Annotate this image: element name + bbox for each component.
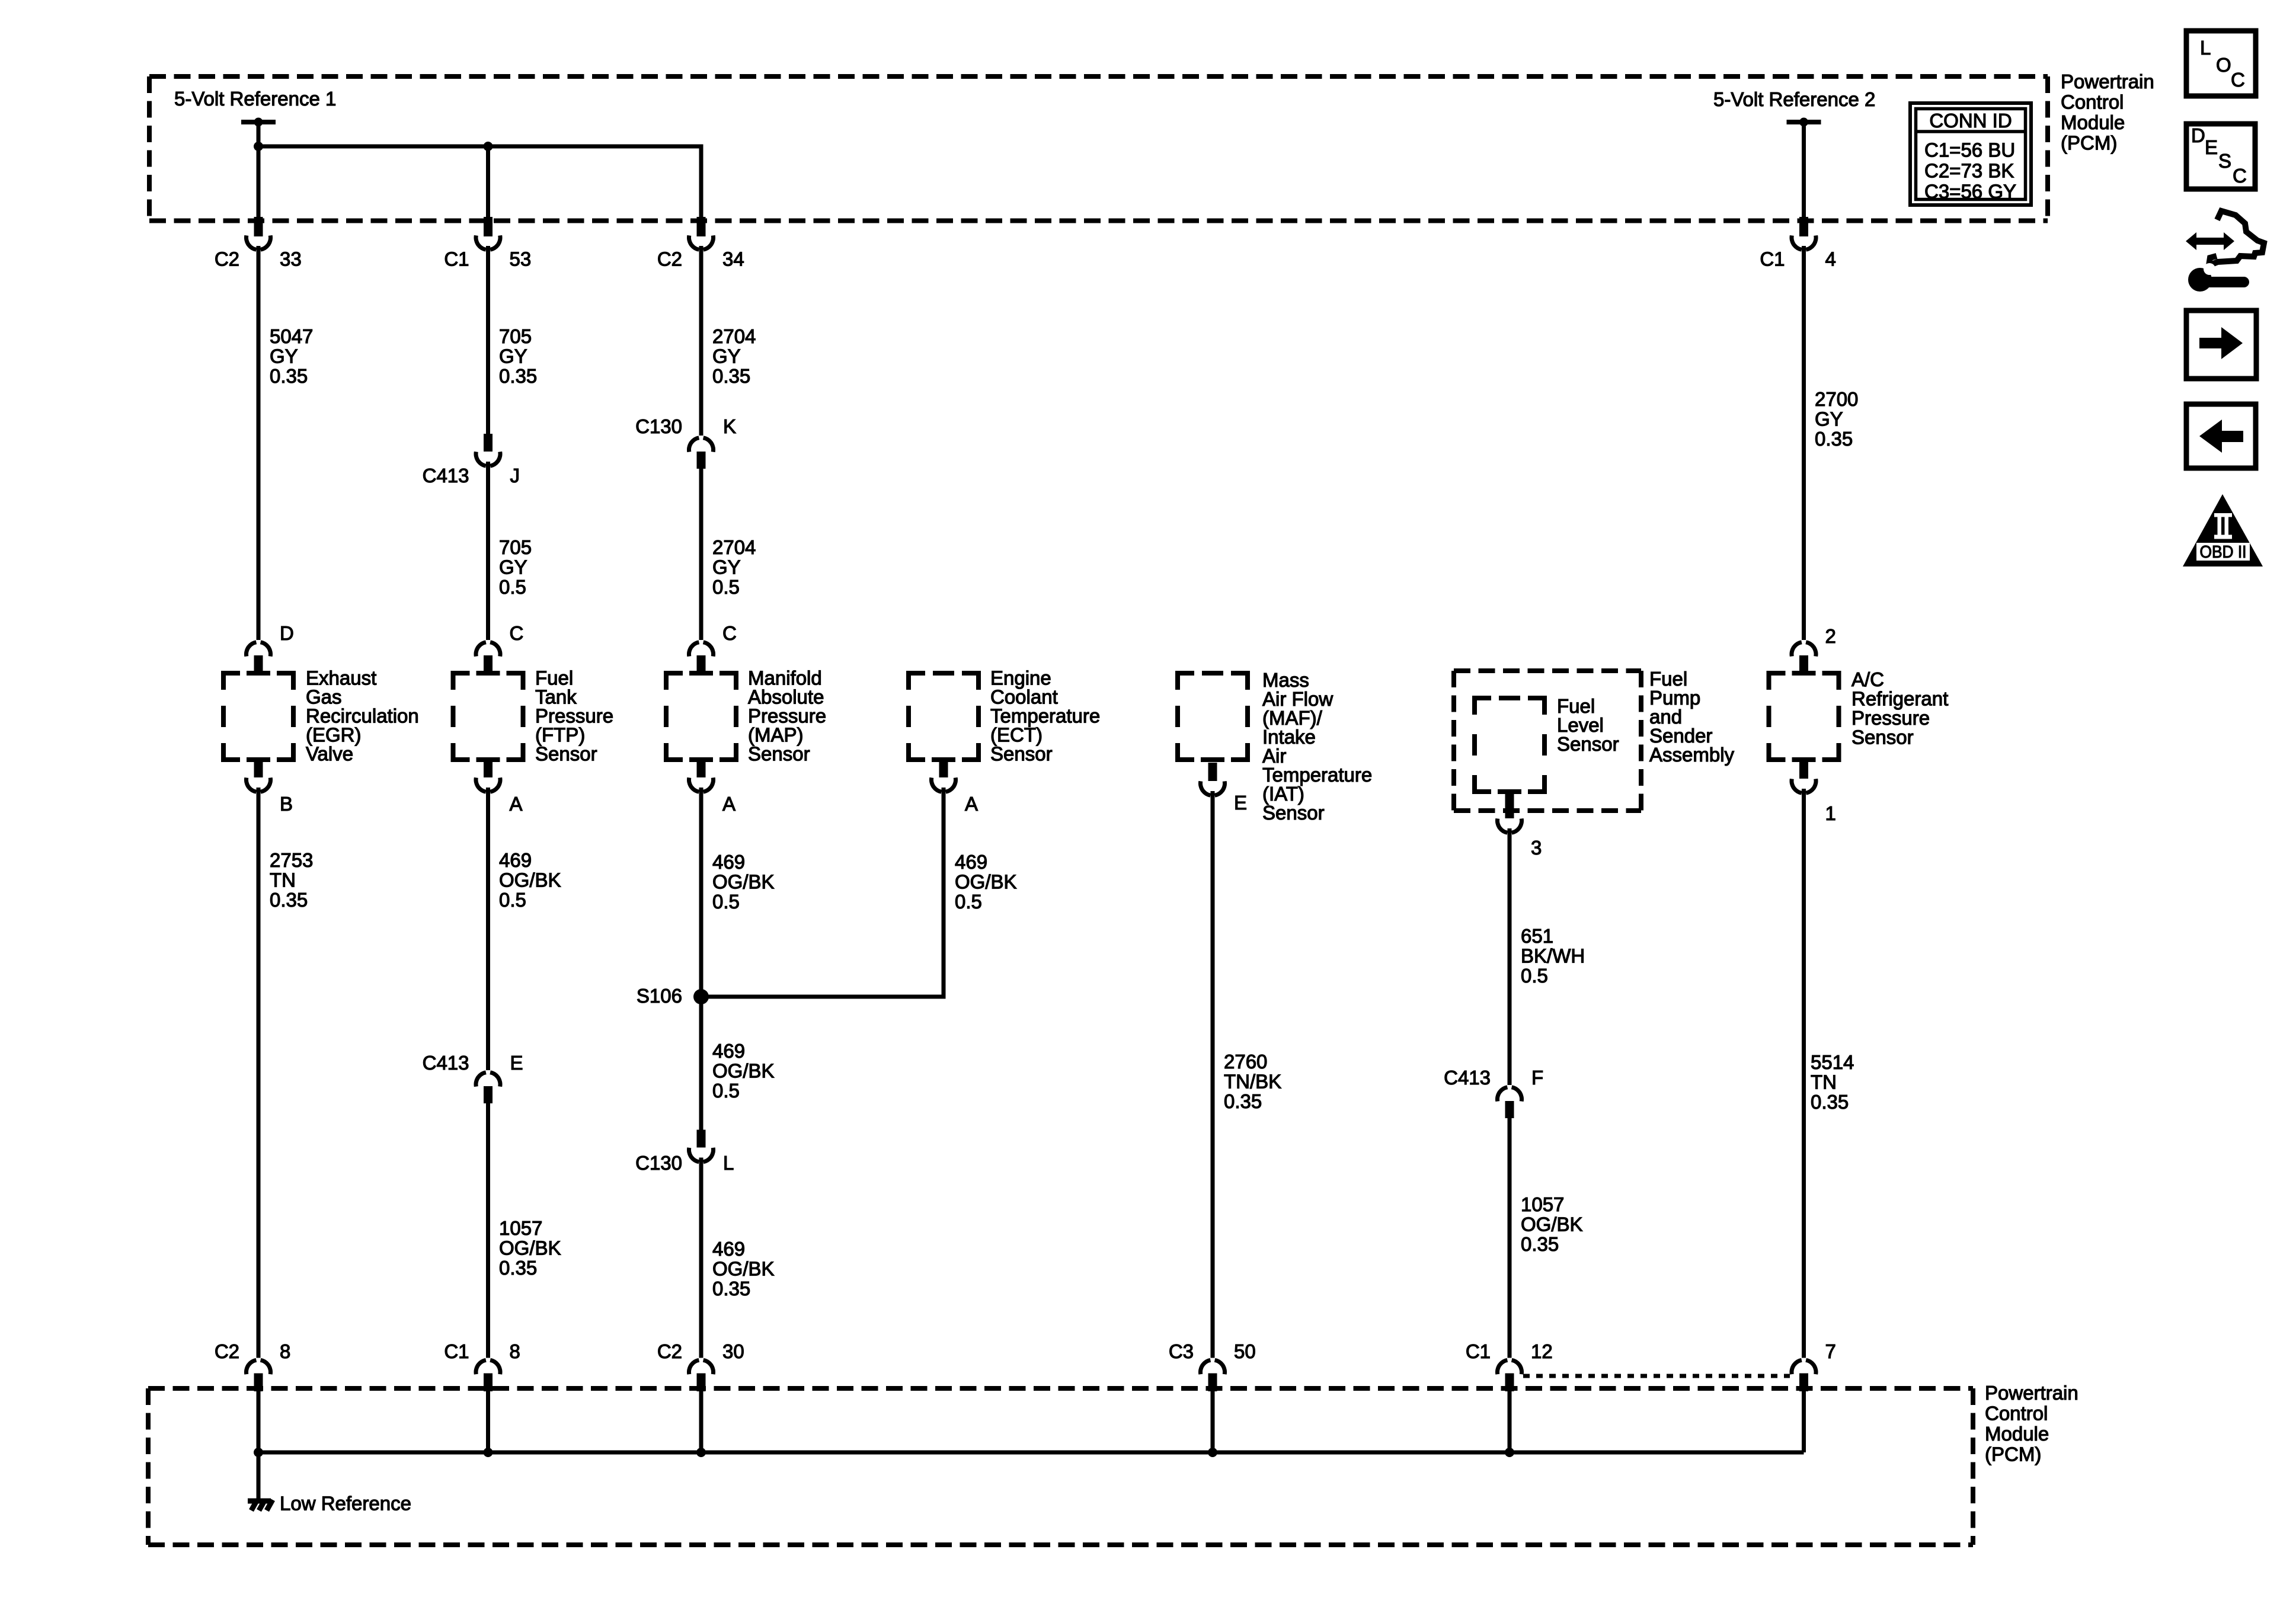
svg-text:C: C <box>510 622 524 644</box>
svg-text:2704: 2704 <box>712 325 756 347</box>
svg-text:OG/BK: OG/BK <box>1521 1214 1583 1235</box>
svg-text:2: 2 <box>1825 625 1836 647</box>
svg-text:1057: 1057 <box>1521 1193 1564 1215</box>
svg-text:GY: GY <box>270 345 298 367</box>
svg-text:C2: C2 <box>657 248 682 270</box>
svg-text:C413: C413 <box>423 465 469 486</box>
svg-text:7: 7 <box>1825 1340 1836 1362</box>
svg-text:Sensor: Sensor <box>748 743 810 765</box>
svg-text:E: E <box>510 1052 523 1074</box>
svg-text:B: B <box>280 793 293 815</box>
svg-text:GY: GY <box>1815 408 1843 430</box>
svg-text:0.35: 0.35 <box>499 365 537 387</box>
svg-text:Assembly: Assembly <box>1649 744 1735 766</box>
svg-text:E: E <box>2205 136 2218 158</box>
svg-text:A: A <box>722 793 736 815</box>
svg-text:D: D <box>280 622 294 644</box>
svg-text:C413: C413 <box>1444 1067 1491 1089</box>
svg-text:L: L <box>2200 37 2211 59</box>
svg-text:Control: Control <box>2061 91 2124 113</box>
svg-text:(PCM): (PCM) <box>1985 1443 2041 1465</box>
svg-text:5047: 5047 <box>270 325 313 347</box>
svg-text:469: 469 <box>712 851 745 873</box>
svg-text:C1=56 BU: C1=56 BU <box>1924 139 2015 161</box>
svg-text:0.35: 0.35 <box>712 1278 750 1299</box>
svg-text:Low Reference: Low Reference <box>280 1493 411 1515</box>
svg-text:2753: 2753 <box>270 849 313 871</box>
svg-text:469: 469 <box>955 851 987 873</box>
svg-text:A: A <box>510 793 523 815</box>
svg-text:C130: C130 <box>635 1152 682 1174</box>
svg-text:2700: 2700 <box>1815 388 1858 410</box>
svg-text:OG/BK: OG/BK <box>499 869 561 891</box>
svg-text:0.35: 0.35 <box>270 889 308 911</box>
svg-text:0.35: 0.35 <box>1815 428 1853 450</box>
svg-text:C1: C1 <box>444 1340 469 1362</box>
svg-text:651: 651 <box>1521 925 1553 947</box>
svg-text:C: C <box>2231 69 2245 91</box>
svg-text:705: 705 <box>499 536 532 558</box>
svg-text:C: C <box>722 622 737 644</box>
svg-text:0.35: 0.35 <box>499 1257 537 1279</box>
svg-text:C2: C2 <box>657 1340 682 1362</box>
svg-text:0.35: 0.35 <box>712 365 750 387</box>
svg-text:GY: GY <box>712 345 741 367</box>
svg-text:Powertrain: Powertrain <box>2061 71 2154 92</box>
svg-text:2704: 2704 <box>712 536 756 558</box>
svg-text:Sensor: Sensor <box>1262 802 1325 824</box>
svg-text:0.35: 0.35 <box>1811 1091 1849 1113</box>
svg-text:C2=73 BK: C2=73 BK <box>1924 160 2014 182</box>
svg-text:A: A <box>965 793 978 815</box>
svg-text:Valve: Valve <box>306 743 353 765</box>
svg-text:C3: C3 <box>1169 1340 1194 1362</box>
svg-text:D: D <box>2191 124 2205 146</box>
svg-text:E: E <box>1234 792 1247 814</box>
svg-text:0.5: 0.5 <box>955 891 982 913</box>
svg-text:C1: C1 <box>1760 248 1785 270</box>
svg-text:0.5: 0.5 <box>712 1080 740 1102</box>
svg-text:OG/BK: OG/BK <box>712 1060 775 1082</box>
svg-text:469: 469 <box>712 1238 745 1260</box>
svg-text:Sensor: Sensor <box>1557 733 1619 755</box>
svg-text:12: 12 <box>1531 1340 1553 1362</box>
svg-text:705: 705 <box>499 325 532 347</box>
svg-text:C3=56 GY: C3=56 GY <box>1924 181 2016 203</box>
svg-text:0.35: 0.35 <box>270 365 308 387</box>
svg-text:34: 34 <box>722 248 744 270</box>
svg-text:0.35: 0.35 <box>1521 1233 1559 1255</box>
svg-text:0.5: 0.5 <box>499 576 526 598</box>
svg-text:OG/BK: OG/BK <box>955 871 1017 893</box>
svg-text:O: O <box>2216 54 2231 76</box>
svg-text:C130: C130 <box>635 415 682 437</box>
svg-text:GY: GY <box>499 345 527 367</box>
svg-text:1: 1 <box>1825 802 1836 824</box>
svg-text:(PCM): (PCM) <box>2061 132 2117 154</box>
svg-text:0.5: 0.5 <box>499 889 526 911</box>
svg-text:30: 30 <box>722 1340 744 1362</box>
svg-text:GY: GY <box>712 556 741 578</box>
svg-text:50: 50 <box>1234 1340 1256 1362</box>
svg-text:0.5: 0.5 <box>712 891 740 913</box>
svg-text:Module: Module <box>2061 111 2125 133</box>
svg-text:C1: C1 <box>444 248 469 270</box>
svg-text:Pressure: Pressure <box>1851 707 1930 729</box>
svg-text:1057: 1057 <box>499 1217 542 1239</box>
svg-text:C1: C1 <box>1466 1340 1491 1362</box>
svg-text:C2: C2 <box>215 248 239 270</box>
svg-text:C413: C413 <box>423 1052 469 1074</box>
svg-text:Sensor: Sensor <box>1851 726 1914 748</box>
svg-text:OG/BK: OG/BK <box>499 1237 561 1259</box>
svg-text:F: F <box>1531 1067 1543 1089</box>
svg-text:Sensor: Sensor <box>535 743 597 765</box>
svg-text:OG/BK: OG/BK <box>712 871 775 893</box>
svg-text:BK/WH: BK/WH <box>1521 945 1585 967</box>
svg-text:Sensor: Sensor <box>990 743 1053 765</box>
svg-text:469: 469 <box>499 849 532 871</box>
svg-text:5-Volt Reference 2: 5-Volt Reference 2 <box>1713 88 1875 110</box>
svg-text:Powertrain: Powertrain <box>1985 1382 2078 1404</box>
svg-text:0.35: 0.35 <box>1224 1090 1262 1112</box>
svg-text:TN: TN <box>1811 1071 1837 1093</box>
svg-text:5514: 5514 <box>1811 1051 1854 1073</box>
svg-text:S: S <box>2218 150 2231 172</box>
svg-text:3: 3 <box>1531 837 1542 859</box>
svg-text:5-Volt Reference 1: 5-Volt Reference 1 <box>174 88 336 110</box>
svg-text:0.5: 0.5 <box>1521 965 1548 987</box>
svg-text:J: J <box>510 465 520 486</box>
svg-text:TN/BK: TN/BK <box>1224 1071 1281 1093</box>
svg-text:GY: GY <box>499 556 527 578</box>
svg-text:Module: Module <box>1985 1423 2049 1445</box>
svg-text:Control: Control <box>1985 1403 2048 1425</box>
svg-text:TN: TN <box>270 869 296 891</box>
svg-text:53: 53 <box>510 248 532 270</box>
svg-text:A/C: A/C <box>1851 668 1884 690</box>
svg-text:C2: C2 <box>215 1340 239 1362</box>
svg-text:C: C <box>2233 165 2247 187</box>
svg-text:0.5: 0.5 <box>712 576 740 598</box>
svg-text:2760: 2760 <box>1224 1051 1267 1073</box>
svg-text:33: 33 <box>280 248 302 270</box>
svg-text:Refrigerant: Refrigerant <box>1851 688 1948 710</box>
svg-text:S106: S106 <box>637 985 682 1007</box>
svg-text:8: 8 <box>510 1340 520 1362</box>
svg-text:469: 469 <box>712 1040 745 1062</box>
svg-text:L: L <box>723 1152 734 1174</box>
svg-text:K: K <box>723 415 736 437</box>
svg-text:OBD II: OBD II <box>2200 543 2247 562</box>
svg-text:4: 4 <box>1825 248 1836 270</box>
svg-text:OG/BK: OG/BK <box>712 1258 775 1280</box>
svg-text:CONN ID: CONN ID <box>1929 110 2012 132</box>
svg-text:8: 8 <box>280 1340 290 1362</box>
